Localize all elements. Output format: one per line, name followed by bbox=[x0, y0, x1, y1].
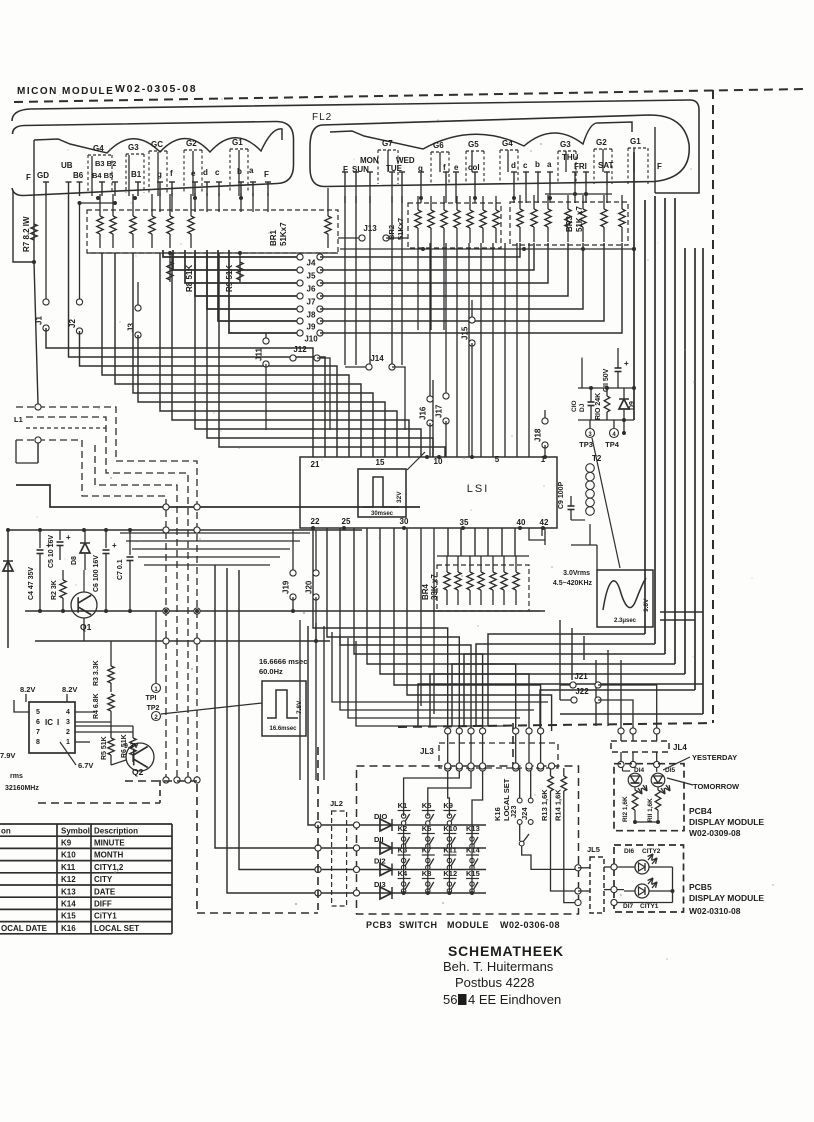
svg-text:4 EE Eindhoven: 4 EE Eindhoven bbox=[468, 992, 561, 1007]
svg-text:+: + bbox=[66, 533, 71, 542]
svg-text:JL3: JL3 bbox=[420, 747, 434, 756]
svg-text:f: f bbox=[443, 163, 446, 172]
svg-text:BR1: BR1 bbox=[269, 229, 278, 246]
svg-text:G2: G2 bbox=[596, 138, 607, 147]
svg-text:K16: K16 bbox=[493, 807, 502, 821]
svg-text:J9: J9 bbox=[307, 323, 316, 332]
svg-text:G4: G4 bbox=[93, 144, 104, 153]
svg-text:W02-0310-08: W02-0310-08 bbox=[689, 906, 741, 916]
svg-text:51Kx7: 51Kx7 bbox=[279, 222, 288, 246]
svg-text:DJ: DJ bbox=[579, 403, 586, 412]
svg-text:K12: K12 bbox=[443, 869, 457, 878]
svg-text:W02-0305-08: W02-0305-08 bbox=[115, 83, 197, 95]
svg-text:IC: IC bbox=[45, 718, 53, 727]
svg-text:TP3: TP3 bbox=[579, 440, 593, 449]
svg-text:60.0Hz: 60.0Hz bbox=[259, 667, 283, 676]
svg-text:R3 3.3K: R3 3.3K bbox=[93, 660, 100, 686]
svg-text:TOMORROW: TOMORROW bbox=[693, 782, 740, 791]
svg-text:DI4: DI4 bbox=[634, 767, 645, 774]
svg-text:CITY: CITY bbox=[94, 875, 113, 884]
svg-text:DIFF: DIFF bbox=[94, 900, 112, 909]
svg-text:J6: J6 bbox=[307, 285, 316, 294]
svg-text:CITY1,2: CITY1,2 bbox=[94, 863, 124, 872]
svg-text:GD: GD bbox=[37, 171, 49, 180]
svg-text:2.3μsec: 2.3μsec bbox=[614, 618, 637, 624]
svg-text:K9: K9 bbox=[61, 839, 72, 848]
svg-text:6.7V: 6.7V bbox=[78, 761, 93, 770]
svg-text:c: c bbox=[215, 168, 220, 177]
svg-text:WED: WED bbox=[396, 156, 415, 165]
svg-text:9.3V: 9.3V bbox=[124, 743, 139, 750]
svg-text:K15: K15 bbox=[61, 912, 76, 921]
svg-text:e: e bbox=[454, 163, 459, 172]
svg-text:2: 2 bbox=[66, 729, 70, 736]
svg-text:K6: K6 bbox=[422, 824, 432, 833]
svg-text:I: I bbox=[57, 718, 59, 727]
svg-text:33K x7: 33K x7 bbox=[430, 574, 439, 600]
svg-text:R2 3K: R2 3K bbox=[51, 580, 58, 600]
svg-text:MON: MON bbox=[360, 156, 379, 165]
svg-text:CiTY1: CiTY1 bbox=[94, 912, 117, 921]
svg-text:RIO 24K: RIO 24K bbox=[595, 393, 602, 420]
svg-text:R7 8.2 IW: R7 8.2 IW bbox=[22, 216, 31, 252]
svg-text:CIO: CIO bbox=[571, 400, 578, 412]
svg-text:J16: J16 bbox=[419, 406, 428, 420]
svg-text:J7: J7 bbox=[307, 298, 316, 307]
svg-text:K10: K10 bbox=[443, 824, 457, 833]
svg-text:J10: J10 bbox=[304, 335, 318, 344]
svg-text:MICON: MICON bbox=[17, 86, 58, 97]
svg-text:K5: K5 bbox=[422, 801, 432, 810]
svg-text:56: 56 bbox=[443, 992, 457, 1007]
svg-text:R13 1,6K: R13 1,6K bbox=[540, 789, 549, 821]
svg-text:CITY1: CITY1 bbox=[640, 903, 659, 910]
svg-text:32160MHz: 32160MHz bbox=[5, 785, 39, 792]
svg-text:9.6V: 9.6V bbox=[643, 598, 650, 612]
svg-text:8: 8 bbox=[36, 739, 40, 746]
svg-text:RI2 1,6K: RI2 1,6K bbox=[622, 796, 629, 822]
svg-text:J14: J14 bbox=[370, 354, 384, 363]
svg-text:MODULE: MODULE bbox=[62, 86, 114, 97]
svg-text:DI6: DI6 bbox=[624, 848, 635, 855]
svg-text:GC: GC bbox=[151, 140, 163, 149]
svg-text:K8: K8 bbox=[422, 869, 432, 878]
svg-text:D9: D9 bbox=[629, 401, 636, 410]
svg-text:BR4: BR4 bbox=[421, 583, 430, 600]
svg-text:DISPLAY MODULE: DISPLAY MODULE bbox=[689, 893, 764, 903]
svg-text:22: 22 bbox=[311, 517, 320, 526]
svg-text:B6: B6 bbox=[73, 171, 84, 180]
svg-text:C6 100 16V: C6 100 16V bbox=[93, 555, 100, 592]
svg-text:7: 7 bbox=[36, 729, 40, 736]
svg-text:W02-0306-08: W02-0306-08 bbox=[500, 920, 560, 930]
svg-text:51Kx7: 51Kx7 bbox=[396, 218, 405, 240]
svg-text:Symbol: Symbol bbox=[61, 826, 90, 835]
svg-text:1: 1 bbox=[66, 739, 70, 746]
svg-text:J22: J22 bbox=[575, 687, 589, 696]
svg-text:PCB5: PCB5 bbox=[689, 882, 712, 892]
svg-text:f: f bbox=[170, 169, 173, 178]
svg-text:TPI: TPI bbox=[146, 695, 157, 702]
svg-text:K15: K15 bbox=[466, 869, 480, 878]
svg-text:G4: G4 bbox=[502, 139, 513, 148]
svg-text:G1: G1 bbox=[232, 138, 243, 147]
svg-text:a: a bbox=[249, 166, 254, 175]
svg-text:TP2: TP2 bbox=[147, 705, 160, 712]
svg-text:JL5: JL5 bbox=[587, 845, 600, 854]
svg-text:DII: DII bbox=[374, 835, 384, 844]
svg-text:J11: J11 bbox=[255, 348, 264, 361]
svg-text:R14 1,6K: R14 1,6K bbox=[554, 789, 563, 821]
svg-text:K2: K2 bbox=[398, 824, 408, 833]
svg-text:TP4: TP4 bbox=[605, 440, 620, 449]
svg-text:J21: J21 bbox=[574, 672, 588, 681]
svg-text:G3: G3 bbox=[560, 140, 571, 149]
svg-text:Q2: Q2 bbox=[132, 767, 144, 777]
svg-text:16.6msec: 16.6msec bbox=[269, 726, 297, 732]
svg-text:K7: K7 bbox=[422, 846, 432, 855]
svg-text:d: d bbox=[511, 161, 516, 170]
svg-text:BR3: BR3 bbox=[565, 215, 574, 232]
svg-text:C4 47 35V: C4 47 35V bbox=[28, 567, 35, 600]
svg-text:c: c bbox=[523, 161, 528, 170]
svg-text:JL2: JL2 bbox=[330, 799, 343, 808]
svg-text:R8 51K: R8 51K bbox=[185, 265, 194, 292]
svg-text:Postbus 4228: Postbus 4228 bbox=[455, 975, 535, 990]
svg-text:+: + bbox=[112, 541, 117, 550]
svg-text:LSI: LSI bbox=[467, 483, 490, 495]
svg-text:J23: J23 bbox=[509, 805, 518, 818]
svg-text:FL2: FL2 bbox=[312, 112, 332, 123]
svg-text:K4: K4 bbox=[398, 869, 408, 878]
svg-text:F: F bbox=[26, 173, 31, 182]
svg-text:UB: UB bbox=[61, 161, 73, 170]
svg-text:K9: K9 bbox=[443, 801, 453, 810]
svg-text:col: col bbox=[468, 163, 480, 172]
svg-text:K3: K3 bbox=[398, 846, 408, 855]
svg-text:30msec: 30msec bbox=[371, 511, 394, 517]
svg-text:G5: G5 bbox=[468, 140, 479, 149]
svg-text:5: 5 bbox=[36, 709, 40, 716]
svg-text:DATE: DATE bbox=[94, 887, 116, 896]
svg-text:J15: J15 bbox=[461, 326, 470, 340]
svg-text:J24: J24 bbox=[520, 807, 529, 820]
svg-text:DI7: DI7 bbox=[623, 903, 634, 910]
svg-text:RII 1,6K: RII 1,6K bbox=[647, 798, 654, 822]
svg-text:DISPLAY MODULE: DISPLAY MODULE bbox=[689, 817, 764, 827]
svg-text:30: 30 bbox=[400, 517, 409, 526]
svg-text:B1: B1 bbox=[131, 170, 142, 179]
svg-text:R4 6.8K: R4 6.8K bbox=[93, 693, 100, 719]
svg-text:K12: K12 bbox=[61, 875, 76, 884]
svg-text:on: on bbox=[1, 826, 11, 835]
svg-text:PCB3: PCB3 bbox=[366, 920, 392, 930]
svg-text:J8: J8 bbox=[307, 311, 316, 320]
svg-text:K11: K11 bbox=[61, 863, 76, 872]
svg-text:J19: J19 bbox=[282, 580, 291, 594]
svg-text:Q1: Q1 bbox=[80, 622, 92, 632]
svg-text:35: 35 bbox=[460, 518, 469, 527]
svg-text:F: F bbox=[657, 162, 662, 171]
svg-text:G1: G1 bbox=[630, 137, 641, 146]
svg-text:d: d bbox=[203, 168, 208, 177]
svg-text:C5 10 16V: C5 10 16V bbox=[48, 535, 55, 568]
svg-text:K13: K13 bbox=[61, 887, 76, 896]
svg-text:SAT: SAT bbox=[598, 161, 614, 170]
svg-text:J12: J12 bbox=[293, 345, 307, 354]
svg-text:3.0Vrms: 3.0Vrms bbox=[563, 570, 590, 577]
svg-text:K13: K13 bbox=[466, 824, 480, 833]
svg-text:+: + bbox=[624, 359, 629, 368]
svg-text:PCB4: PCB4 bbox=[689, 806, 712, 816]
svg-text:Beh. T. Huitermans: Beh. T. Huitermans bbox=[443, 959, 554, 974]
svg-text:5: 5 bbox=[495, 455, 500, 464]
svg-text:16.6666 msec: 16.6666 msec bbox=[259, 657, 307, 666]
svg-text:7.9V: 7.9V bbox=[0, 751, 15, 760]
svg-text:4.5~420KHz: 4.5~420KHz bbox=[553, 580, 593, 587]
svg-text:L1: L1 bbox=[14, 415, 23, 424]
svg-text:K14: K14 bbox=[61, 900, 76, 909]
svg-text:J5: J5 bbox=[307, 272, 316, 281]
svg-text:J18: J18 bbox=[534, 428, 543, 442]
svg-text:51K x7: 51K x7 bbox=[575, 206, 584, 232]
svg-text:a: a bbox=[547, 160, 552, 169]
svg-text:K11: K11 bbox=[443, 846, 456, 855]
svg-text:F: F bbox=[264, 170, 269, 179]
svg-text:K10: K10 bbox=[61, 851, 76, 860]
svg-text:MODULE: MODULE bbox=[447, 920, 489, 930]
svg-text:OCAL DATE: OCAL DATE bbox=[1, 924, 48, 933]
svg-text:6: 6 bbox=[36, 719, 40, 726]
svg-text:G3: G3 bbox=[128, 143, 139, 152]
svg-text:W02-0309-08: W02-0309-08 bbox=[689, 828, 741, 838]
svg-text:4: 4 bbox=[66, 709, 70, 716]
svg-text:G7: G7 bbox=[382, 139, 393, 148]
svg-text:J17: J17 bbox=[435, 404, 444, 418]
svg-text:J20: J20 bbox=[305, 580, 314, 594]
svg-text:8.2V: 8.2V bbox=[20, 685, 35, 694]
svg-text:b: b bbox=[535, 160, 540, 169]
svg-text:B4 B5: B4 B5 bbox=[92, 171, 113, 180]
svg-text:K16: K16 bbox=[61, 924, 76, 933]
svg-text:32V: 32V bbox=[396, 491, 403, 503]
svg-text:J2: J2 bbox=[68, 319, 77, 328]
svg-text:DIO: DIO bbox=[374, 812, 388, 821]
svg-text:MONTH: MONTH bbox=[94, 851, 124, 860]
svg-text:J3: J3 bbox=[127, 323, 136, 332]
svg-text:7.8V: 7.8V bbox=[296, 700, 303, 714]
svg-text:rms: rms bbox=[10, 773, 23, 780]
svg-text:MINUTE: MINUTE bbox=[94, 839, 125, 848]
svg-text:D8: D8 bbox=[71, 556, 78, 565]
svg-text:8.2V: 8.2V bbox=[62, 685, 77, 694]
svg-text:B3 B2: B3 B2 bbox=[95, 159, 116, 168]
svg-text:G6: G6 bbox=[433, 141, 444, 150]
svg-text:J4: J4 bbox=[307, 259, 316, 268]
svg-text:LOCAL SET: LOCAL SET bbox=[94, 924, 139, 933]
svg-text:42: 42 bbox=[540, 518, 549, 527]
svg-text:SCHEMATHEEK: SCHEMATHEEK bbox=[448, 943, 564, 959]
svg-text:DI2: DI2 bbox=[374, 857, 386, 866]
svg-text:DI3: DI3 bbox=[374, 880, 386, 889]
svg-text:K1: K1 bbox=[398, 801, 408, 810]
svg-text:YESTERDAY: YESTERDAY bbox=[692, 753, 737, 762]
svg-text:C7 0.1: C7 0.1 bbox=[117, 559, 124, 580]
svg-text:K14: K14 bbox=[466, 846, 481, 855]
svg-text:25: 25 bbox=[342, 517, 351, 526]
svg-text:CITY2: CITY2 bbox=[642, 848, 661, 855]
svg-text:21: 21 bbox=[311, 460, 320, 469]
svg-text:JL4: JL4 bbox=[673, 743, 687, 752]
svg-text:C9 100P: C9 100P bbox=[558, 481, 565, 509]
svg-text:G2: G2 bbox=[186, 139, 197, 148]
svg-text:40: 40 bbox=[517, 518, 526, 527]
svg-text:Description: Description bbox=[94, 826, 138, 835]
svg-text:15: 15 bbox=[376, 458, 385, 467]
svg-text:SWITCH: SWITCH bbox=[399, 920, 438, 930]
svg-text:3: 3 bbox=[66, 719, 70, 726]
